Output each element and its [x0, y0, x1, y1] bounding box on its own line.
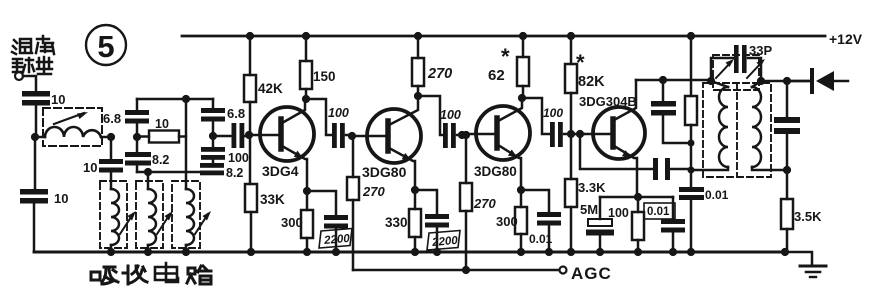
- node: base Q4 feedback: [576, 130, 584, 138]
- svg-text:AGC: AGC: [571, 264, 612, 283]
- capacitor C18 series feedback: [653, 158, 692, 180]
- svg-text:270: 270: [427, 66, 452, 82]
- node: secondary bottom: [783, 166, 791, 174]
- svg-text:100: 100: [440, 108, 461, 122]
- svg-text:3DG4: 3DG4: [262, 163, 299, 179]
- transformer T1 primary: [692, 81, 728, 170]
- svg-text:0.01: 0.01: [647, 206, 670, 218]
- node: base Q3: [462, 131, 470, 139]
- node: emitter Q3: [517, 186, 525, 194]
- node: ground C20: [687, 248, 695, 256]
- capacitor C17 0.01: [644, 197, 685, 252]
- transistor Q4 3DG304B: [579, 80, 645, 197]
- node: collector Q2: [414, 92, 422, 100]
- wire: divider bottom: [137, 171, 213, 174]
- node: rail R5: [414, 32, 422, 40]
- svg-text:0.01: 0.01: [529, 232, 553, 246]
- svg-text:+12V: +12V: [829, 31, 863, 47]
- capacitor C15 100 coupling 3-4: [543, 106, 584, 147]
- node: rail R14: [687, 32, 695, 40]
- resistor R2 33K: [245, 135, 285, 252]
- capacitor C11 2200: [307, 191, 352, 252]
- junction dots stage4 ground: [567, 248, 575, 256]
- diode D1: [787, 70, 848, 92]
- node: base Q1: [245, 131, 253, 139]
- svg-text:5: 5: [97, 29, 114, 64]
- inductor L4 absorber 3: [186, 189, 211, 252]
- capacitor C21 33P top coupling: [711, 43, 772, 81]
- resistor R5 270 collector load Q2: [412, 36, 452, 96]
- node: emitter Q1: [303, 187, 311, 195]
- wire: secondary top to diode: [761, 80, 810, 83]
- capacitor C20 0.01 decoupling: [679, 187, 729, 252]
- shield box of input tank (dashed): [43, 108, 102, 146]
- node: absorber 2 ground: [144, 248, 152, 256]
- wire: left column down: [34, 137, 37, 188]
- svg-text:100: 100: [543, 106, 563, 120]
- wire: +12V supply rail: [182, 35, 825, 38]
- svg-text:42K: 42K: [258, 81, 283, 96]
- node: base Q2: [348, 132, 356, 140]
- node: rail R8: [519, 32, 527, 40]
- node: rail R1: [246, 32, 254, 40]
- svg-text:3.3K: 3.3K: [578, 180, 606, 195]
- capacitor C12 100 coupling 2-3: [440, 108, 466, 148]
- node: detector tap: [783, 77, 791, 85]
- node: ground R15: [781, 248, 789, 256]
- svg-text:3DG80: 3DG80: [362, 164, 407, 180]
- shield box transformer (dashed): [703, 55, 771, 177]
- capacitor C9 100 series to Q1: [213, 123, 249, 165]
- transistor Q2 3DG80: [352, 96, 421, 190]
- svg-text:6.8: 6.8: [227, 106, 245, 121]
- resistor R10 300: [496, 190, 527, 252]
- svg-text:10: 10: [54, 191, 68, 206]
- node: divider left: [133, 133, 141, 141]
- capacitor C3 10 to absorber: [83, 137, 123, 189]
- svg-text:10: 10: [83, 160, 97, 175]
- terminal AGC: [560, 267, 567, 274]
- inductor L3 absorber 2: [148, 172, 173, 252]
- svg-text:100: 100: [608, 206, 629, 220]
- shield box absorber 2 (dashed): [136, 181, 163, 248]
- svg-text:3DG80: 3DG80: [474, 164, 517, 179]
- wire: divider middle vertical: [185, 99, 188, 189]
- capacitor C13 2200: [415, 190, 460, 252]
- svg-text:6.8: 6.8: [103, 111, 121, 126]
- svg-text:62: 62: [488, 67, 505, 84]
- shield box absorber 1 (dashed): [100, 181, 127, 248]
- node: rail R3: [302, 32, 310, 40]
- resistor R1 42K: [244, 36, 283, 135]
- capacitor C19 collector bypass: [651, 80, 691, 143]
- wire: Q4 collector to transformer: [636, 79, 711, 82]
- node: tank right: [107, 133, 115, 141]
- wire: divider top: [137, 98, 213, 101]
- svg-text:3DG304B: 3DG304B: [579, 94, 637, 109]
- svg-text:*: *: [576, 50, 585, 75]
- node: emitter Q2: [411, 186, 419, 194]
- inductor L2 absorber 1: [111, 189, 136, 252]
- node: absorber 2 tap: [144, 168, 152, 176]
- resistor R11 82K: [565, 36, 605, 134]
- svg-text:270: 270: [362, 184, 385, 199]
- svg-text:100: 100: [328, 106, 349, 120]
- svg-text:300: 300: [281, 215, 303, 230]
- label: absorption circuit (Chinese): [91, 263, 211, 284]
- wire: Q2 collector to C12: [418, 96, 443, 135]
- capacitor C16 5M electrolytic: [580, 197, 614, 252]
- capacitor C5 8.2 left branch bottom: [125, 137, 169, 172]
- node: tank left: [31, 133, 39, 141]
- resistor R-div 10 horizontal: [137, 117, 186, 143]
- capacitor C6 6.8 right branch top: [201, 99, 245, 136]
- input terminal: [15, 72, 23, 80]
- svg-text:150: 150: [313, 69, 336, 84]
- capacitor C7 right branch mid: [201, 136, 225, 160]
- svg-text:270: 270: [473, 196, 496, 211]
- resistor R9 270 base Q3 to AGC: [460, 135, 496, 270]
- svg-text:*: *: [501, 44, 510, 69]
- svg-text:0.01: 0.01: [705, 188, 729, 202]
- node: absorber 3 ground: [182, 248, 190, 256]
- wire: feedback from base Q4: [580, 134, 653, 169]
- wire: ground rail: [34, 251, 785, 254]
- svg-text:2200: 2200: [323, 233, 351, 247]
- svg-text:10: 10: [51, 92, 65, 107]
- wire: Q1 collector to C10: [306, 99, 332, 135]
- svg-text:100: 100: [228, 151, 249, 165]
- capacitor C1 10: [22, 91, 65, 137]
- wire: AGC line: [353, 269, 559, 272]
- node: collector Q3: [518, 94, 526, 102]
- resistor R3 150: [300, 36, 336, 99]
- capacitor C22 secondary tuning: [774, 81, 800, 170]
- capacitor C4 6.8 left branch top: [125, 99, 149, 137]
- resistor R6 270 base Q2 to AGC: [347, 136, 385, 270]
- svg-text:5M: 5M: [580, 202, 598, 217]
- node: emitter Q4: [634, 193, 642, 201]
- shield box absorber 3 (dashed): [172, 181, 200, 248]
- svg-text:300: 300: [496, 214, 518, 229]
- wire: Q3 collector to C15: [522, 98, 550, 134]
- inductor L1 tuned input tank: [35, 112, 111, 137]
- svg-text:3.5K: 3.5K: [794, 209, 822, 224]
- label: mixer output (Chinese): [12, 36, 54, 74]
- svg-text:330: 330: [385, 215, 408, 230]
- capacitor C14 0.01: [521, 190, 561, 252]
- resistor R15 3.5K: [781, 170, 822, 252]
- capacitor C8 8.2 right branch bottom: [200, 160, 243, 180]
- resistor R14 decoupling: [685, 36, 697, 187]
- resistor R4 300: [281, 191, 313, 252]
- svg-text:8.2: 8.2: [226, 166, 243, 180]
- node: C19 top: [659, 76, 667, 84]
- node: absorber 1 ground: [107, 248, 115, 256]
- node: divider top middle: [182, 95, 190, 103]
- figure number 5: [86, 25, 126, 65]
- resistor R8 62 collector load Q3: [488, 36, 529, 98]
- node: C19 bottom: [688, 140, 695, 147]
- capacitor C10 100 coupling 1-2: [328, 106, 352, 148]
- node: collector Q1: [302, 95, 310, 103]
- node: 33P left: [707, 77, 715, 85]
- transistor Q1 3DG4: [249, 99, 314, 191]
- node: decoupling junction: [688, 167, 695, 174]
- node: rail R11: [567, 32, 575, 40]
- wire: emitter bus Q4: [600, 196, 673, 199]
- transistor Q3 3DG80: [466, 98, 530, 190]
- wire: terminal to C1: [23, 76, 36, 91]
- capacitor C2 10: [20, 189, 68, 252]
- ground symbol: [785, 252, 826, 277]
- node: divider right: [209, 132, 217, 140]
- svg-text:33K: 33K: [260, 192, 285, 207]
- transformer T1 secondary: [752, 81, 786, 170]
- node: base Q4 bias: [567, 130, 575, 138]
- resistor R13 100 emitter Q4: [608, 197, 644, 252]
- svg-text:10: 10: [155, 117, 169, 131]
- svg-text:8.2: 8.2: [152, 153, 169, 167]
- svg-text:33P: 33P: [749, 43, 772, 58]
- resistor R12 3.3K: [565, 134, 606, 252]
- svg-text:82K: 82K: [578, 74, 605, 90]
- node: AGC R9 tap: [462, 266, 470, 274]
- junction dots stage1 ground: [247, 248, 255, 256]
- junction dots stage3 ground: [517, 248, 525, 256]
- svg-text:2200: 2200: [431, 235, 459, 249]
- node: 33P right: [757, 77, 765, 85]
- junction dots stage2 ground: [411, 248, 419, 256]
- resistor R7 330: [385, 190, 421, 252]
- node: after C12: [458, 131, 466, 139]
